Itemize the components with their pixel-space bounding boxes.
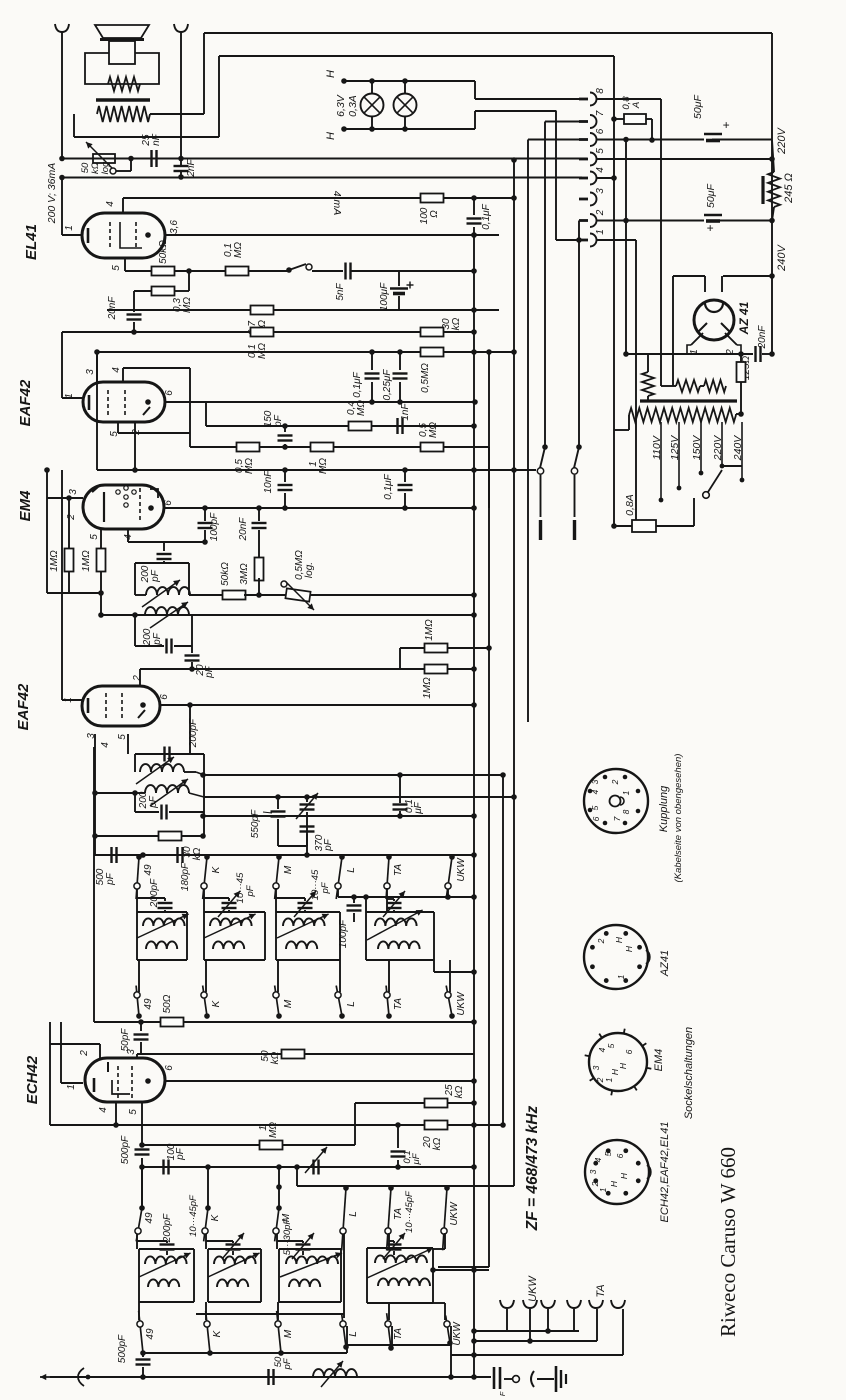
capacitor 50uF b — [704, 214, 722, 216]
wire — [138, 1249, 140, 1302]
wire — [93, 855, 95, 1022]
wire — [399, 382, 401, 402]
junction — [369, 349, 375, 355]
socket ECH42 — [585, 1140, 649, 1204]
wire — [506, 1309, 508, 1331]
svg-text:pF: pF — [282, 1357, 293, 1370]
svg-text:2: 2 — [66, 514, 77, 521]
capacitor C var a — [300, 805, 315, 810]
svg-text:M: M — [283, 999, 294, 1008]
resistor R 25k — [425, 1099, 448, 1108]
svg-text:10nF: 10nF — [263, 470, 274, 494]
svg-text:μF: μF — [413, 801, 424, 814]
wire — [647, 354, 649, 372]
winding mains primary — [629, 408, 736, 422]
wire — [687, 345, 691, 354]
wire — [537, 1378, 554, 1380]
wire — [169, 811, 204, 813]
wire — [203, 815, 474, 817]
svg-text:H: H — [609, 1180, 619, 1187]
svg-text:pF: pF — [323, 838, 334, 852]
junction — [140, 852, 146, 858]
junction — [397, 813, 403, 819]
svg-text:1: 1 — [66, 1084, 77, 1090]
wire — [371, 352, 373, 370]
EM4 electrode — [124, 486, 128, 490]
junction — [256, 505, 262, 511]
wire — [737, 345, 741, 354]
connector pin 4 — [579, 172, 597, 185]
svg-text:50Ω: 50Ω — [162, 994, 173, 1013]
wire — [264, 912, 266, 960]
wire — [143, 1352, 347, 1354]
wire — [296, 1167, 298, 1186]
wire — [555, 111, 557, 241]
ECH42 anode — [112, 1080, 130, 1094]
wire — [123, 367, 190, 369]
junction — [388, 1185, 394, 1191]
svg-text:2: 2 — [590, 1181, 600, 1187]
wire — [95, 835, 160, 837]
svg-text:pF: pF — [245, 884, 256, 897]
svg-text:μF: μF — [411, 1152, 422, 1165]
terminal ant 574 — [567, 1300, 581, 1308]
junction — [444, 1185, 450, 1191]
trimmer arrow t4 — [383, 1233, 405, 1259]
junction — [204, 854, 210, 860]
wire — [61, 470, 63, 700]
wire — [386, 888, 388, 912]
EM4 electrode — [132, 490, 136, 494]
wire — [740, 354, 742, 362]
junction — [471, 1374, 477, 1380]
switch TA c — [385, 1185, 394, 1250]
svg-text:MΩ: MΩ — [244, 458, 255, 474]
wire — [139, 1248, 194, 1250]
wire — [164, 910, 166, 912]
wire — [68, 498, 70, 549]
junction — [623, 821, 628, 826]
svg-text:3: 3 — [590, 779, 600, 784]
coil 49b coil2 — [148, 1279, 179, 1287]
svg-text:20nF: 20nF — [107, 296, 118, 321]
junction — [397, 399, 403, 405]
junction — [276, 1184, 282, 1190]
switch UKW d — [444, 1315, 453, 1345]
svg-text:50μF: 50μF — [705, 183, 717, 207]
socket key notch — [620, 797, 624, 805]
junction — [200, 833, 206, 839]
junction — [637, 945, 642, 950]
junction — [471, 329, 477, 335]
wire — [188, 563, 190, 595]
wire — [388, 960, 390, 992]
wire — [278, 1249, 280, 1302]
svg-text:1nF: 1nF — [400, 402, 411, 420]
tube ECH42 — [85, 1058, 165, 1102]
wire — [232, 1251, 234, 1255]
wire — [204, 508, 206, 521]
wire — [399, 270, 474, 272]
wire — [353, 913, 355, 922]
svg-text:EL41: EL41 — [23, 224, 40, 260]
wire — [142, 1144, 259, 1146]
svg-text:180pF: 180pF — [180, 862, 191, 891]
svg-text:5: 5 — [603, 1151, 613, 1156]
ECH42 cathode — [93, 1078, 96, 1092]
junction — [511, 157, 517, 163]
switch K a — [201, 854, 210, 899]
svg-text:log: log — [100, 161, 111, 174]
svg-text:4: 4 — [593, 1157, 603, 1162]
capacitor C 0,25uF — [393, 374, 408, 379]
coil Mb coil2 — [289, 1279, 320, 1287]
socket pin — [610, 1090, 613, 1095]
junction — [386, 854, 392, 860]
wire — [388, 1233, 390, 1249]
junction — [471, 1338, 477, 1344]
junction — [276, 854, 282, 860]
junction — [286, 267, 292, 273]
tank arrow 49b — [139, 1253, 191, 1277]
connector pin 1 — [579, 234, 597, 247]
wire — [297, 1185, 514, 1187]
svg-text:3: 3 — [595, 188, 606, 194]
capacitor C 10-45 a — [222, 903, 237, 908]
junction — [769, 351, 775, 357]
junction — [139, 1142, 145, 1148]
junction — [140, 702, 146, 708]
svg-text:1: 1 — [616, 974, 626, 979]
wire — [205, 1234, 207, 1249]
switch M a — [273, 854, 282, 899]
wire — [133, 322, 135, 332]
wire — [94, 734, 96, 855]
switch blade — [539, 520, 542, 540]
resistor R 1M b — [65, 549, 74, 572]
resistor pot 50k — [93, 154, 115, 163]
svg-text:2: 2 — [596, 938, 606, 944]
junction — [204, 1013, 210, 1019]
wire — [117, 422, 119, 433]
tube AZ41 — [694, 300, 734, 340]
switch M d — [275, 1311, 284, 1356]
wire — [164, 507, 474, 509]
wire — [97, 469, 536, 471]
wire — [304, 898, 306, 901]
svg-text:K: K — [210, 1213, 221, 1221]
wire — [279, 1248, 341, 1250]
wire — [165, 401, 475, 403]
svg-text:0,25μF: 0,25μF — [382, 369, 393, 401]
junction — [148, 505, 154, 511]
capacitor C 5nF — [346, 263, 351, 280]
wire — [193, 1249, 195, 1302]
svg-text:UKW: UKW — [456, 857, 467, 882]
svg-text:ZF = 468/473 kHz: ZF = 468/473 kHz — [524, 1106, 541, 1232]
socket Kupplung — [584, 769, 648, 833]
wire — [721, 276, 723, 292]
junction — [623, 978, 628, 983]
wire — [544, 122, 546, 448]
wire — [656, 525, 694, 527]
socket notch — [647, 1165, 651, 1179]
junction — [94, 349, 100, 355]
junction — [402, 78, 408, 84]
wire — [258, 578, 260, 595]
junction — [202, 505, 208, 511]
wire — [387, 898, 394, 900]
coil M coil2 — [286, 941, 317, 949]
svg-text:Ω: Ω — [429, 210, 440, 218]
junction — [471, 1019, 477, 1025]
junction — [145, 232, 151, 238]
svg-text:1MΩ: 1MΩ — [81, 550, 92, 572]
svg-text:550pF: 550pF — [250, 809, 261, 838]
svg-text:L: L — [346, 1001, 357, 1007]
junction — [256, 592, 262, 598]
capacitor C 0,1uF mid — [365, 374, 380, 379]
wire — [434, 971, 474, 973]
wire — [249, 270, 288, 272]
svg-text:MΩ: MΩ — [318, 458, 329, 474]
trimmer arrow t5 — [383, 891, 405, 917]
resistor R 1M d — [425, 644, 448, 653]
wire — [277, 1240, 303, 1242]
svg-text:5: 5 — [128, 1109, 139, 1115]
svg-text:200pF: 200pF — [162, 1213, 173, 1243]
svg-text:kΩ: kΩ — [432, 1137, 443, 1150]
junction — [131, 329, 137, 335]
EL41 cathode — [87, 228, 90, 243]
wire — [116, 170, 131, 172]
junction — [92, 833, 98, 839]
svg-text:EM4: EM4 — [17, 490, 34, 522]
wire — [96, 352, 98, 470]
resistor R 0,7M — [251, 306, 274, 315]
wire — [142, 1353, 144, 1357]
fuse 0,8A mains — [632, 520, 656, 532]
wire — [448, 647, 489, 649]
wire — [678, 422, 680, 488]
capacitor C 20nF c — [252, 523, 267, 528]
wire — [366, 959, 434, 961]
junction — [207, 1350, 213, 1356]
junction — [178, 156, 184, 162]
junction — [611, 175, 617, 181]
junction — [606, 1191, 611, 1196]
switch L a — [335, 854, 345, 899]
wire — [504, 1378, 512, 1380]
svg-text:5: 5 — [111, 265, 122, 271]
wire — [399, 811, 401, 816]
resistor R 1M e — [425, 665, 448, 674]
wire — [433, 1248, 445, 1250]
wire — [61, 332, 63, 398]
wire — [721, 422, 723, 466]
junction — [388, 1345, 394, 1351]
junction — [386, 1013, 392, 1019]
svg-text:M: M — [283, 1329, 294, 1338]
svg-text:220V: 220V — [712, 435, 724, 462]
wire — [722, 465, 742, 467]
wire — [473, 198, 475, 215]
wire — [351, 270, 399, 272]
junction — [145, 399, 151, 405]
svg-text:0,1μF: 0,1μF — [383, 473, 394, 499]
junction — [769, 156, 775, 162]
switch UKW a — [445, 854, 455, 899]
svg-text:5: 5 — [89, 534, 100, 540]
EAF42b grid — [105, 693, 107, 720]
wire — [47, 497, 83, 499]
svg-text:+: + — [706, 221, 713, 235]
wire — [596, 1309, 598, 1341]
wire — [347, 1344, 451, 1346]
tube EAF42 a — [83, 382, 165, 422]
wire — [337, 889, 339, 897]
wire — [134, 754, 136, 772]
EM4 electrode — [116, 490, 120, 494]
wire — [388, 1303, 390, 1320]
wire — [124, 258, 126, 271]
junction — [402, 505, 408, 511]
wire — [473, 227, 475, 235]
svg-text:MΩ: MΩ — [356, 400, 367, 416]
junction — [471, 813, 477, 819]
wire — [355, 1102, 425, 1104]
capacitor C 180pF — [178, 847, 183, 863]
EAF42b grid2 — [121, 693, 123, 720]
svg-text:2: 2 — [610, 779, 620, 785]
wire — [444, 1124, 503, 1126]
wire — [46, 470, 48, 593]
svg-text:5: 5 — [117, 734, 128, 740]
svg-text:8: 8 — [595, 88, 606, 94]
wire — [399, 648, 401, 669]
junction — [294, 1164, 300, 1170]
EM4 deflector — [103, 492, 105, 522]
wire — [289, 264, 306, 270]
selector arm — [708, 470, 722, 492]
capacitor C 25nF — [152, 150, 157, 167]
junction — [138, 1019, 144, 1025]
wire — [433, 1302, 445, 1304]
wire — [136, 1054, 138, 1058]
svg-text:0,3A: 0,3A — [347, 95, 359, 117]
coil Kb coil1 — [214, 1256, 256, 1264]
svg-text:6: 6 — [164, 1065, 175, 1071]
wire — [306, 834, 308, 855]
junction — [397, 772, 403, 778]
junction — [145, 1078, 151, 1084]
svg-text:H: H — [624, 945, 634, 952]
junction — [471, 505, 477, 511]
svg-text:L: L — [348, 1331, 359, 1337]
resistor R 0,1M — [226, 267, 249, 276]
svg-text:6: 6 — [164, 390, 175, 396]
tank arrow LTAb — [367, 1248, 433, 1278]
wire — [130, 159, 132, 171]
speaker — [100, 38, 144, 41]
wire — [136, 889, 138, 912]
wire — [647, 396, 649, 401]
resistor R 30k — [421, 328, 444, 337]
wire — [260, 1249, 262, 1302]
capacitor C 10-45 b — [298, 903, 313, 908]
coil L/TA coil1 — [375, 918, 417, 926]
wire — [448, 668, 474, 670]
junction — [588, 789, 593, 794]
wire — [191, 646, 193, 653]
svg-text:pF: pF — [150, 569, 161, 583]
svg-text:pF: pF — [152, 632, 163, 646]
wire — [180, 32, 182, 166]
svg-text:4: 4 — [100, 742, 111, 748]
wire — [473, 235, 475, 1377]
tank arrow Mb — [280, 1253, 342, 1277]
svg-text:7: 7 — [595, 110, 606, 116]
junction — [448, 1374, 454, 1380]
capacitor C 10-45 e — [226, 1245, 241, 1250]
wire — [61, 32, 63, 159]
IF2 tuning arrow — [142, 580, 180, 607]
wire — [204, 959, 265, 961]
switch K d — [204, 1311, 213, 1356]
svg-text:4 mA: 4 mA — [331, 191, 343, 216]
wire — [284, 493, 286, 508]
junction — [611, 116, 617, 122]
wire — [488, 352, 490, 1267]
svg-text:3: 3 — [588, 1169, 598, 1174]
wire — [366, 1248, 368, 1303]
capacitor C 20nF b — [756, 346, 761, 362]
capacitor C 10nF — [278, 485, 293, 490]
junction — [500, 1122, 506, 1128]
junction — [132, 612, 138, 618]
wire — [73, 114, 75, 137]
ECH42 g1 — [107, 1062, 109, 1072]
capacitor C 10-45 c — [387, 1245, 402, 1250]
antenna arrow — [40, 1376, 88, 1378]
wire — [61, 1082, 83, 1084]
connector pin 2 — [579, 214, 597, 227]
junction — [471, 195, 477, 201]
svg-text:49: 49 — [144, 1212, 155, 1224]
junction — [341, 126, 347, 132]
svg-text:1: 1 — [595, 229, 606, 235]
svg-text:H: H — [614, 936, 624, 943]
wire — [163, 542, 165, 551]
wire — [340, 1249, 342, 1302]
svg-text:3: 3 — [126, 1049, 137, 1055]
wire — [50, 1124, 425, 1126]
svg-text:125V: 125V — [669, 435, 681, 461]
wire — [488, 447, 490, 508]
junction — [132, 790, 138, 796]
junction — [471, 969, 477, 975]
wire — [400, 647, 424, 649]
resistor R 50k — [152, 267, 175, 276]
junction — [205, 1205, 211, 1211]
coil K coil2 — [213, 941, 244, 949]
wire — [142, 1166, 474, 1168]
wire — [228, 910, 230, 912]
svg-text:EAF42: EAF42 — [17, 379, 34, 426]
svg-text:2nF: 2nF — [186, 158, 197, 177]
EAF42b diode — [138, 710, 145, 718]
wire — [528, 139, 580, 141]
